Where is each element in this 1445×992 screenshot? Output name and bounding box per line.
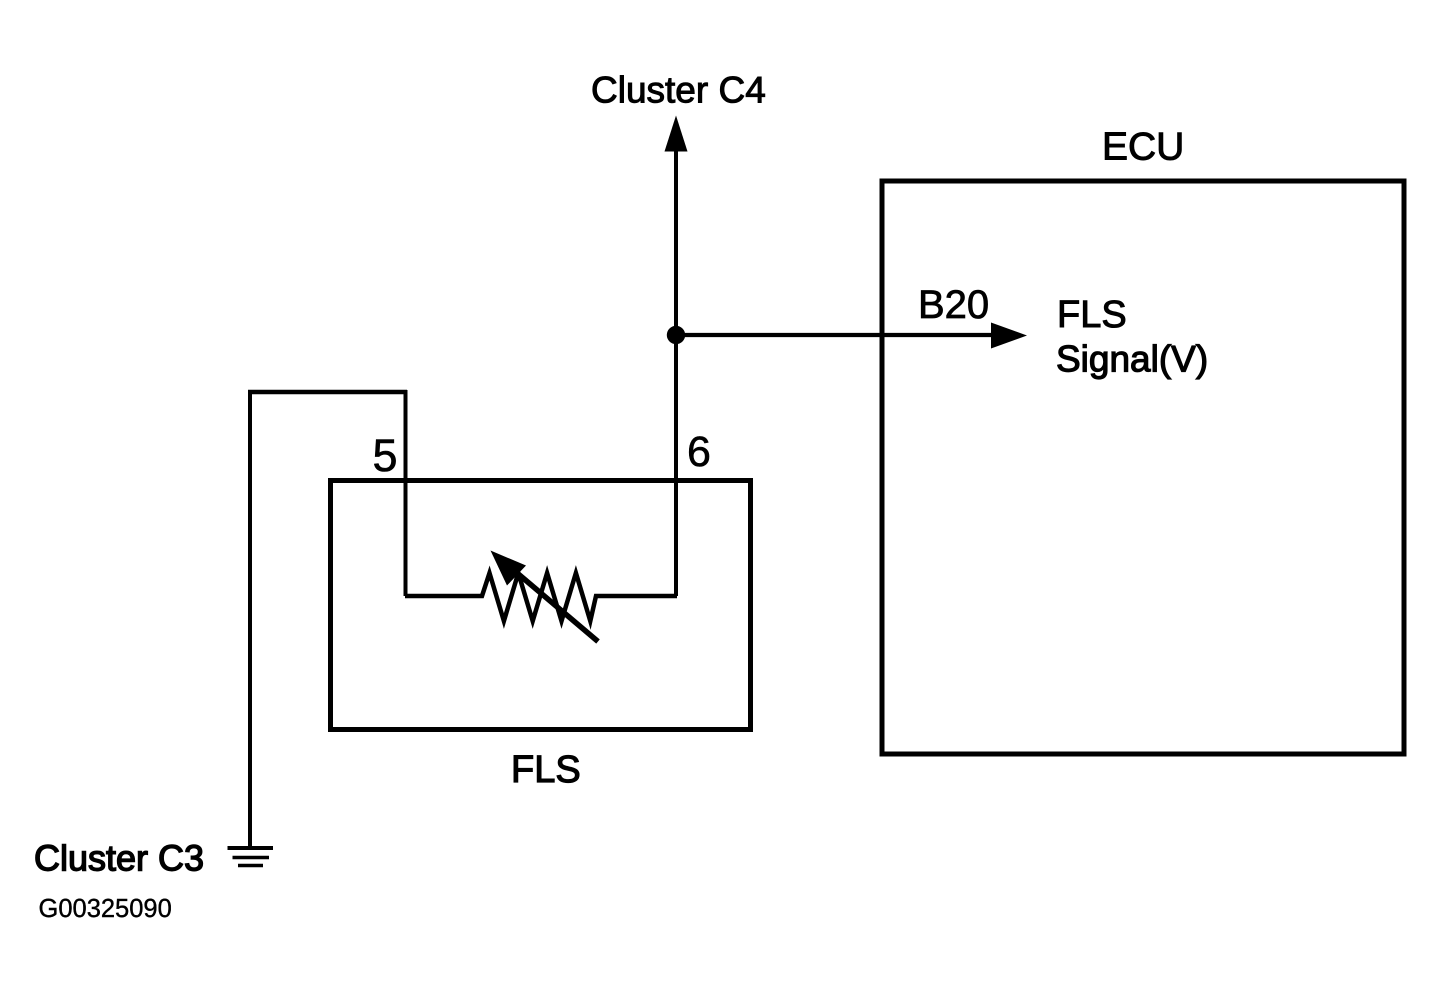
svg-text:Signal(V): Signal(V)	[1056, 339, 1208, 380]
wire: top horizontal (pin 5 to left drop)	[248, 390, 407, 395]
svg-text:6: 6	[687, 428, 711, 476]
wire: left vertical drop to ground	[248, 390, 252, 848]
svg-text:G00325090: G00325090	[39, 895, 172, 923]
variable resistor arrow (diagonal)	[510, 567, 598, 642]
svg-text:Cluster C3: Cluster C3	[34, 838, 204, 879]
ground symbol	[228, 846, 274, 850]
svg-text:FLS: FLS	[511, 749, 581, 791]
svg-text:B20: B20	[918, 283, 989, 327]
wire: horizontal signal to ECU	[676, 333, 995, 337]
resistor: variable resistor zigzag with leads	[405, 573, 677, 621]
svg-text:FLS: FLS	[1057, 294, 1127, 336]
svg-text:5: 5	[373, 430, 398, 481]
arrowhead B20 into ECU	[991, 323, 1027, 349]
ECU box	[882, 181, 1404, 754]
svg-text:ECU: ECU	[1102, 126, 1184, 169]
FLS box (fuel level sensor)	[331, 481, 751, 730]
wire: vertical lead from arrow to node	[674, 150, 678, 335]
svg-text:Cluster C4: Cluster C4	[591, 70, 766, 111]
wire: pin 5 vertical	[404, 390, 408, 596]
wire: pin 6 vertical	[674, 335, 678, 596]
node: signal junction	[667, 326, 685, 344]
arrow to Cluster C4	[665, 116, 688, 152]
